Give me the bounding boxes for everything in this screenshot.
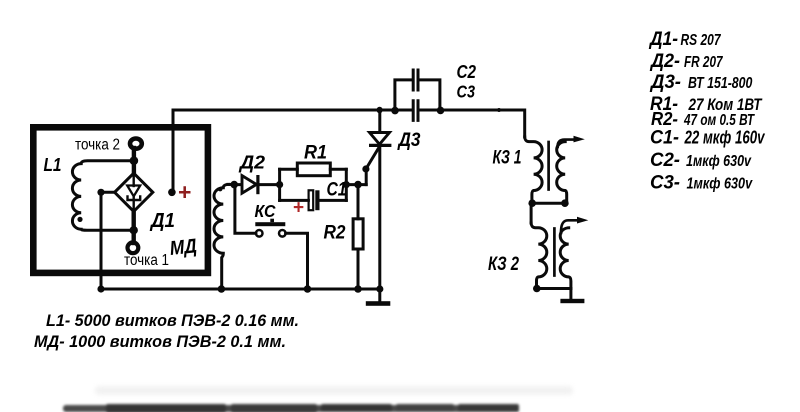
RC block right vertical [345, 169, 348, 200]
junction dot C2 loop right [437, 107, 445, 115]
svg-text:Д3-: Д3- [649, 72, 681, 93]
wire switch right contact to bottom rail [286, 233, 308, 289]
thyristor D3 triangle [370, 133, 390, 145]
svg-text:С1: С1 [327, 180, 347, 201]
ground bar 2 [560, 299, 584, 303]
terminal tochka 1 circle [127, 242, 138, 253]
watermark faint row [95, 386, 573, 395]
svg-text:R2-: R2- [651, 109, 678, 129]
wire bottom rail [101, 288, 380, 291]
node dot on tochka2 stub [130, 156, 139, 165]
K3 1 bottom tie wire [532, 202, 565, 205]
transformer K3 1 primary winding [525, 137, 542, 203]
wire bridge left vertex to left node [101, 191, 115, 194]
L1 winding start dot [77, 217, 82, 222]
svg-text:точка 2: точка 2 [75, 137, 120, 154]
wire RC right node to gate riser [346, 183, 366, 186]
wire top rail from box to C3 left plate [173, 109, 412, 112]
capacitor C1 right plate [315, 190, 319, 210]
svg-text:L1: L1 [44, 155, 62, 175]
svg-text:С2-: С2- [650, 150, 680, 171]
wire thyristor gate diagonal [366, 147, 380, 170]
K3 1 secondary output arrow [558, 140, 575, 147]
wire vertical from top rail into box to bridge plus node [172, 110, 175, 192]
wire switch left contact to D2 anode node [235, 185, 256, 234]
MD winding start dot [218, 187, 222, 191]
junction dot RC right node [343, 181, 350, 188]
junction dot K3 1 bottom right [561, 199, 569, 207]
transformer K3 2 secondary winding [560, 228, 571, 289]
svg-text:Д3: Д3 [397, 129, 421, 151]
svg-text:1мкф 630v: 1мкф 630v [686, 153, 752, 170]
switch KC left contact [256, 230, 263, 237]
transformer K3 2 core [553, 229, 556, 276]
svg-text:+: + [293, 198, 304, 219]
capacitor C2 bypass loop wires [395, 80, 440, 110]
diode symbol inside bridge [127, 175, 140, 211]
svg-text:С1-: С1- [650, 128, 679, 149]
K3 2 secondary output arrow [561, 220, 579, 233]
switch KC actuator bar [255, 222, 285, 226]
wire top rail from C3 right plate to corner above K3 1 [419, 110, 525, 137]
svg-text:точка 1: точка 1 [124, 252, 169, 269]
inductor L1 coil [72, 161, 134, 231]
wire gate riser up [365, 169, 368, 185]
resistor R2 body [353, 219, 363, 249]
wire R2 bottom lead [357, 249, 360, 289]
wire R2 top lead [357, 185, 360, 219]
junction dot bottom rail right end [376, 285, 383, 292]
svg-text:L1- 5000 витков ПЭВ-2 0.16 м: L1- 5000 витков ПЭВ-2 0.16 мм. [46, 311, 299, 330]
junction dot D2 anode / switch branch [230, 181, 238, 189]
wire left node down to bottom rail [100, 192, 103, 289]
shield box around L1 D1 MD [33, 127, 208, 273]
wire D2 cathode to RC node [258, 183, 280, 186]
svg-text:С2: С2 [457, 61, 477, 82]
thyristor D3 anode wire from rail [378, 110, 381, 132]
svg-text:R1: R1 [304, 143, 327, 164]
svg-text:Д2-: Д2- [649, 51, 680, 72]
switch KC right contact [279, 230, 286, 237]
svg-text:С3: С3 [457, 82, 476, 102]
watermark dark bar [63, 404, 519, 412]
svg-text:R2: R2 [324, 223, 346, 244]
svg-text:27 Ком 1ВТ: 27 Ком 1ВТ [688, 95, 763, 114]
svg-text:КС: КС [255, 201, 276, 221]
svg-text:МД- 1000 витков ПЭВ-2 0.1 мм.: МД- 1000 витков ПЭВ-2 0.1 мм. [34, 332, 286, 351]
node plus junction dot [168, 189, 176, 197]
junction dot bottom rail switch branch [304, 285, 312, 293]
transformer K3 2 primary winding [531, 223, 547, 289]
junction dot K3 1 bottom left [528, 199, 536, 207]
svg-text:ВТ 151-800: ВТ 151-800 [688, 75, 752, 92]
svg-text:КЗ 1: КЗ 1 [493, 148, 522, 169]
junction dot D3 on rail [376, 107, 382, 113]
terminal tochka 2 circle [130, 139, 142, 149]
RC block left vertical [278, 169, 281, 200]
capacitor C2 plates [413, 70, 418, 90]
parts list line D1 [648, 29, 765, 193]
thyristor D3 cathode bar [371, 144, 390, 147]
transformer K3 1 secondary winding [557, 142, 567, 204]
transformer K3 1 core [547, 142, 550, 190]
wire MD top to D2 anode node [228, 183, 241, 186]
svg-text:+: + [178, 179, 191, 205]
junction dot gate [362, 165, 369, 172]
left node junction dot [97, 189, 104, 196]
K3 2 bottom tie wire [537, 287, 571, 290]
svg-text:С3-: С3- [650, 172, 680, 193]
ground bar 1 [366, 301, 391, 306]
junction dot RC left node [276, 181, 283, 188]
junction dot R2 top [354, 181, 362, 189]
capacitor C3 plates [413, 101, 418, 121]
RC block top branch wire [280, 168, 347, 171]
wire bridge bottom vertex stub to tochka1 [131, 211, 135, 243]
RC block bottom branch wire [280, 199, 347, 202]
node dot on tochka1 stub [130, 226, 138, 234]
transformer MD secondary coil [214, 184, 229, 289]
svg-text:RS 207: RS 207 [681, 32, 722, 49]
svg-text:1мкф 630v: 1мкф 630v [687, 175, 754, 192]
wire K3 1 to K3 2 [530, 203, 533, 223]
wire D3 cathode down to bottom rail and ground [378, 145, 381, 301]
junction dot bottom rail R2 [354, 285, 362, 293]
svg-text:Д1: Д1 [149, 210, 175, 232]
svg-text:Д1-: Д1- [648, 29, 678, 50]
diode bridge D1 diamond [115, 173, 153, 211]
small dot on rail right of C loop [497, 108, 501, 112]
junction dot bottom rail left end [97, 285, 104, 292]
junction dot K3 2 bottom left [533, 285, 541, 293]
svg-text:Д2: Д2 [238, 152, 266, 173]
wire bridge top vertex stub to tochka2 [132, 148, 136, 173]
resistor R1 body [297, 163, 330, 176]
svg-text:МД: МД [169, 235, 198, 260]
capacitor C1 left plate hollow [309, 190, 314, 210]
svg-text:22 мкф 160v: 22 мкф 160v [684, 128, 765, 148]
junction dot bottom rail MD coil [218, 285, 226, 293]
svg-text:КЗ 2: КЗ 2 [488, 254, 519, 275]
wire K3 2 ground stub [569, 289, 572, 300]
diode D2 [242, 176, 256, 194]
svg-text:FR 207: FR 207 [684, 54, 723, 71]
junction dot C2 loop left [391, 107, 399, 115]
